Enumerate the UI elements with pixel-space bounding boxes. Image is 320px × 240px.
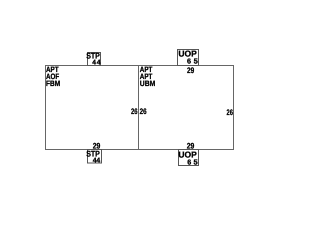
svg-text:26: 26	[140, 107, 147, 116]
svg-text:6: 6	[187, 56, 191, 65]
svg-text:4: 4	[92, 59, 96, 66]
top STP stoop box	[88, 53, 101, 66]
svg-text:4: 4	[96, 157, 100, 164]
left unit labels APT/AOF/FBM	[46, 65, 60, 88]
main building outline (two adjoining units)	[46, 66, 234, 150]
right unit outline	[139, 66, 234, 150]
top UOP porch box	[178, 50, 199, 66]
left unit outline	[46, 66, 139, 150]
bottom UOP porch box	[179, 150, 199, 166]
bottom STP stoop box	[88, 150, 102, 164]
svg-text:4: 4	[97, 59, 101, 66]
svg-text:UBM: UBM	[140, 79, 156, 88]
svg-text:FBM: FBM	[46, 79, 60, 88]
svg-text:5: 5	[194, 56, 198, 65]
svg-text:5: 5	[194, 158, 198, 167]
svg-text:26: 26	[227, 108, 234, 117]
svg-text:26: 26	[131, 107, 138, 116]
svg-text:6: 6	[187, 158, 191, 167]
svg-text:29: 29	[187, 66, 195, 75]
right unit labels APT/APT/UBM	[140, 65, 156, 88]
